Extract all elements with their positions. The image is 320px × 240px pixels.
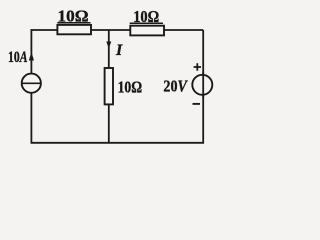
svg-text:20V: 20V [163,77,188,96]
svg-text:I: I [115,42,123,59]
svg-text:10A: 10A [8,49,28,66]
svg-text:10Ω: 10Ω [118,78,143,97]
